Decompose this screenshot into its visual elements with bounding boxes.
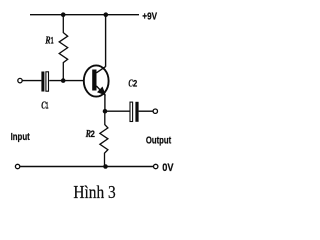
svg-text:+9V: +9V — [142, 11, 157, 23]
svg-text:1: 1 — [46, 100, 49, 110]
wire: emitter down to emitter node — [104, 95, 106, 111]
node: junction of collector wire with +9V rail — [104, 12, 109, 17]
wire: input terminal to C1 — [22, 80, 41, 82]
transistor Q1: emitter stroke with arrow — [96, 86, 104, 95]
terminal: output open circle — [153, 109, 157, 113]
terminal: input open circle — [18, 78, 22, 82]
wire: C2 to output terminal — [139, 110, 153, 112]
terminal: 0V right open circle — [154, 164, 158, 168]
capacitor C2 (hollow left plate, solid right plate) — [130, 102, 133, 121]
resistor R2 (zigzag from emitter node down to 0V rail) — [100, 111, 108, 166]
svg-text:0V: 0V — [162, 162, 174, 174]
node: base junction (R1 meets base wire) — [61, 78, 66, 83]
node: junction of R2 with 0V rail — [103, 164, 108, 169]
svg-text:2: 2 — [91, 129, 95, 139]
svg-text:Hình 3: Hình 3 — [73, 182, 116, 202]
capacitor C1 (solid left plate, hollow right plate) — [41, 72, 44, 92]
node: emitter junction (R2 and C2 take-off) — [103, 109, 108, 114]
transistor Q1: collector stroke — [96, 67, 105, 73]
wire: emitter node to C2 — [105, 110, 130, 112]
svg-text:Input: Input — [11, 132, 31, 143]
resistor R1 (zigzag from +9V rail down to base node) — [59, 15, 67, 81]
svg-text:Output: Output — [146, 136, 172, 147]
wire: C1 to transistor base — [49, 80, 84, 82]
wire: +9V top supply rail — [30, 14, 139, 16]
node: junction of R1 with +9V rail — [61, 12, 66, 17]
transistor Q1: base bar — [92, 70, 96, 91]
svg-text:1: 1 — [51, 36, 54, 46]
wire: collector up to +9V rail — [105, 15, 107, 67]
transistor Q1: NPN body circle — [84, 65, 109, 96]
wire: 0V bottom rail — [20, 166, 153, 168]
svg-text:2: 2 — [133, 78, 137, 88]
terminal: bottom-left open circle — [15, 164, 19, 168]
